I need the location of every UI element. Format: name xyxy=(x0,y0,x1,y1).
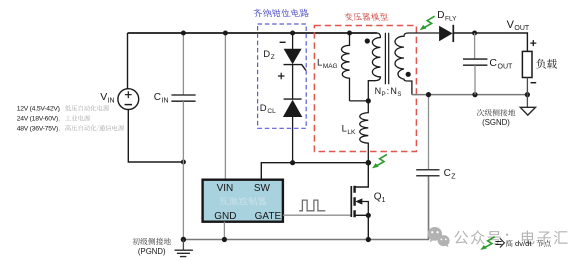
svg-text:1: 1 xyxy=(382,197,386,204)
transformer core xyxy=(385,33,388,84)
svg-text:V: V xyxy=(507,19,515,31)
node top rail CIN xyxy=(181,31,186,36)
svg-text:GND: GND xyxy=(214,211,236,222)
wire top rail (primary) xyxy=(128,32,378,34)
label SGND chinese xyxy=(477,109,515,116)
svg-text:D: D xyxy=(263,49,270,60)
secondary polarity dot xyxy=(406,72,411,77)
svg-text:LK: LK xyxy=(347,129,356,136)
wire VIN source bottom to CIN bottom xyxy=(128,110,183,163)
clamp diode DCL xyxy=(284,99,302,117)
high dv/dt arrow at DFLY node xyxy=(420,16,435,30)
label flyback controller (chinese) xyxy=(220,197,266,206)
svg-text:N: N xyxy=(375,86,382,96)
transformer primary winding xyxy=(368,33,380,101)
capacitor CIN xyxy=(182,33,184,95)
wire controller GATE to Q1 gate xyxy=(283,214,351,216)
svg-text:GATE: GATE xyxy=(255,211,282,222)
zener clamp dashed box xyxy=(258,24,307,128)
svg-text:12V (4.5V-42V): 12V (4.5V-42V) xyxy=(17,106,60,113)
svg-text:48V (36V-75V): 48V (36V-75V) xyxy=(17,125,58,132)
svg-text:SW: SW xyxy=(254,183,271,194)
minus sign load xyxy=(531,82,537,84)
svg-text:Z: Z xyxy=(451,174,456,181)
wire load bottom xyxy=(526,78,528,95)
node bottom rail CIN xyxy=(181,237,186,242)
svg-text:V: V xyxy=(100,91,107,103)
label PGND chinese xyxy=(132,238,171,245)
watermark text xyxy=(454,230,567,244)
svg-text:dv/dt: dv/dt xyxy=(515,239,532,248)
transformer secondary winding xyxy=(395,33,439,95)
node bottom rail Q1 source xyxy=(366,237,371,242)
svg-text:S: S xyxy=(397,92,401,98)
node sec rail COUT xyxy=(472,92,477,97)
svg-text:N: N xyxy=(390,86,397,96)
wire bottom rail + CZ branch xyxy=(183,176,428,240)
zener diode DZ xyxy=(284,49,306,70)
svg-text:(PGND): (PGND) xyxy=(138,247,166,256)
capacitor CZ xyxy=(428,95,430,170)
node sec rail load xyxy=(525,92,530,97)
svg-text:D: D xyxy=(260,103,267,114)
legend arrow symbol xyxy=(495,238,504,247)
wire left branch to VIN source xyxy=(127,33,129,89)
svg-text:D: D xyxy=(437,10,444,21)
svg-text:Z: Z xyxy=(271,54,275,61)
primary polarity dot xyxy=(365,38,370,43)
capacitor COUT xyxy=(474,33,476,59)
wire clamp top xyxy=(292,33,294,49)
svg-text:OUT: OUT xyxy=(514,25,530,32)
wire secondary ground rail xyxy=(412,94,528,96)
svg-text:MAG: MAG xyxy=(323,63,338,70)
wire DZ to DCL xyxy=(292,65,294,100)
node sec rail CZ xyxy=(426,92,431,97)
diode DFLY xyxy=(439,25,453,42)
minus sign DZ xyxy=(280,41,286,43)
node top rail clamp xyxy=(290,31,295,36)
wire DCL to SW node xyxy=(292,117,294,163)
svg-text:24V (18V-60V): 24V (18V-60V) xyxy=(17,116,58,123)
wire LMAG bottom to node xyxy=(350,100,369,102)
svg-text:L: L xyxy=(317,58,322,69)
svg-text:C: C xyxy=(489,57,497,69)
svg-text:FLY: FLY xyxy=(445,15,457,22)
svg-text:C: C xyxy=(154,92,161,103)
node clamp/SW xyxy=(290,160,295,165)
wire SW node xyxy=(261,163,368,180)
svg-text::: : xyxy=(387,86,390,96)
transformer model dashed box xyxy=(314,26,416,152)
load resistor xyxy=(522,51,532,77)
wire controller GND pin xyxy=(223,222,225,240)
input description text xyxy=(17,106,60,133)
svg-text:CL: CL xyxy=(267,108,276,115)
node top rail LMAG xyxy=(347,31,352,36)
label transformer model xyxy=(345,13,389,21)
secondary ground SGND xyxy=(520,95,535,116)
node VOUT xyxy=(472,31,477,36)
svg-text:OUT: OUT xyxy=(498,63,514,70)
svg-text:C: C xyxy=(444,168,451,179)
inductor LMAG xyxy=(341,33,349,101)
wire secondary top rail xyxy=(453,33,527,51)
legend text: high dv/dt node xyxy=(506,240,513,247)
node drain/SW xyxy=(366,160,372,166)
label load chinese xyxy=(536,59,557,69)
node LMAG/primary/LLK xyxy=(366,98,371,103)
label zener clamp circuit xyxy=(253,9,309,18)
node VIN-/CIN junction xyxy=(181,160,186,165)
transistor Q1 xyxy=(351,163,371,240)
svg-text:P: P xyxy=(382,92,386,98)
high dv/dt arrow at drain node xyxy=(372,154,387,168)
flyback controller U1 xyxy=(203,180,283,222)
plus sign load xyxy=(530,40,536,46)
legend high dv/dt arrow xyxy=(480,237,494,250)
node bottom rail GND pin xyxy=(222,237,227,242)
svg-text:Q: Q xyxy=(374,192,382,203)
inductor LLK xyxy=(360,101,369,163)
svg-text:VIN: VIN xyxy=(217,183,234,194)
svg-text:IN: IN xyxy=(108,98,115,105)
watermark wechat icon xyxy=(428,227,450,247)
primary ground PGND xyxy=(175,240,193,257)
node top rail VIN pin xyxy=(223,31,228,36)
wire controller VIN pin xyxy=(224,33,226,180)
gate pulse waveform xyxy=(299,200,325,211)
voltage source VIN xyxy=(118,89,139,110)
svg-text:L: L xyxy=(342,124,347,135)
svg-text:IN: IN xyxy=(162,98,169,105)
svg-text:(SGND): (SGND) xyxy=(482,118,510,127)
plus sign DZ xyxy=(278,73,285,80)
